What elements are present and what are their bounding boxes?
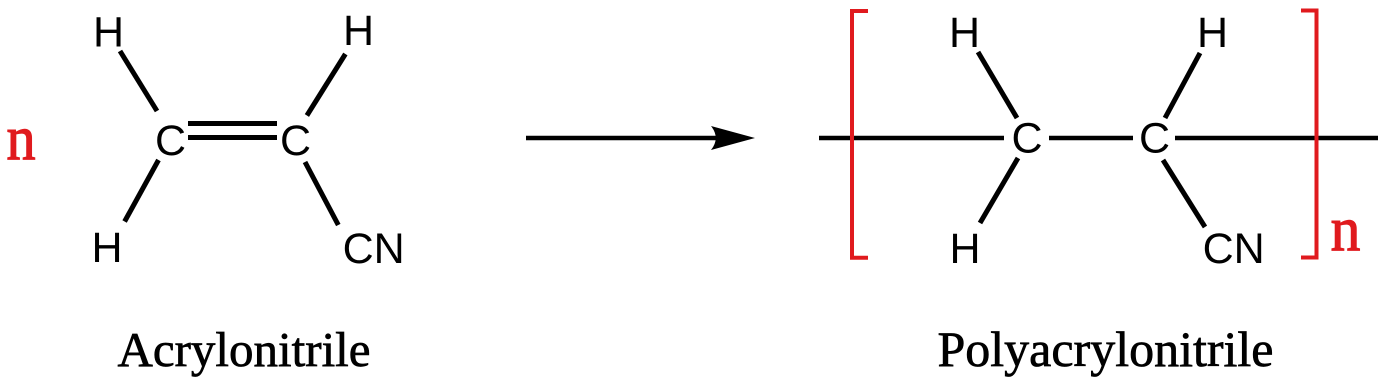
svg-text:H: H: [343, 7, 374, 55]
svg-text:H: H: [93, 9, 124, 57]
svg-text:n: n: [1331, 195, 1361, 265]
svg-text:H: H: [949, 9, 980, 57]
svg-text:C: C: [280, 117, 311, 165]
svg-text:H: H: [1197, 9, 1228, 57]
svg-text:H: H: [949, 225, 980, 273]
svg-text:C: C: [155, 117, 186, 165]
svg-text:C: C: [1011, 115, 1042, 163]
svg-text:n: n: [6, 103, 35, 174]
svg-text:C: C: [1139, 115, 1170, 163]
svg-text:Polyacrylonitrile: Polyacrylonitrile: [937, 321, 1273, 377]
svg-text:CN: CN: [343, 225, 405, 273]
svg-text:CN: CN: [1203, 225, 1265, 273]
svg-text:H: H: [91, 224, 122, 272]
svg-text:Acrylonitrile: Acrylonitrile: [117, 322, 370, 377]
